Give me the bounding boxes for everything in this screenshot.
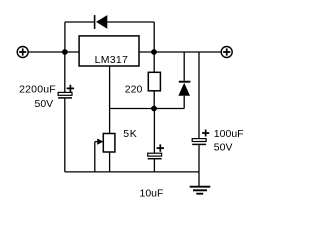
C3 plus sign — [202, 130, 209, 137]
potentiometer R2 5K body — [103, 134, 115, 153]
wire bypass left vertical — [64, 22, 66, 52]
svg-text:LM317: LM317 — [95, 54, 129, 66]
svg-text:220: 220 — [125, 83, 143, 95]
C1 plus sign — [67, 85, 74, 92]
diode D2 (points up) — [178, 82, 190, 96]
output terminal (+) — [221, 47, 232, 58]
regulator U1 LM317 box — [79, 36, 139, 66]
ground — [190, 172, 211, 194]
wire wiper vertical — [94, 142, 96, 172]
wire output rail — [139, 51, 221, 53]
input terminal (+) — [17, 47, 28, 58]
capacitor C2 plates — [148, 153, 162, 159]
capacitor C1 plates — [58, 92, 72, 98]
node input junction — [62, 49, 68, 55]
capacitor C1 2200uF top lead — [64, 52, 66, 92]
wire D2 top lead — [183, 52, 185, 81]
svg-text:2200uF: 2200uF — [19, 84, 56, 96]
node adj junction — [151, 106, 157, 112]
wire R1 bottom lead — [153, 91, 155, 109]
wire pot bottom lead — [109, 152, 111, 172]
wire adj rail — [110, 108, 185, 110]
svg-text:50V: 50V — [35, 98, 54, 110]
capacitor C3 100uF top lead — [198, 52, 200, 139]
svg-text:50V: 50V — [214, 142, 233, 154]
C2 plus sign — [157, 144, 164, 151]
wire C3 bottom lead — [198, 145, 200, 172]
wiper arrow — [95, 139, 104, 145]
wire D2 bottom lead — [183, 96, 185, 109]
node output junction — [151, 49, 157, 55]
wire R1 top lead — [153, 52, 155, 72]
wire bottom rail — [65, 171, 199, 173]
wire adj pin vertical — [109, 66, 111, 134]
svg-text:5K: 5K — [123, 128, 137, 140]
svg-text:100uF: 100uF — [214, 128, 244, 140]
capacitor C3 plates — [192, 139, 206, 145]
resistor R1 220 — [148, 72, 160, 91]
wire bypass top horizontal — [65, 22, 154, 52]
wire C1 bottom lead — [64, 99, 66, 172]
svg-text:10uF: 10uF — [140, 188, 164, 200]
diode D1 (protection, points left) — [95, 15, 108, 29]
capacitor C2 10uF top lead — [153, 109, 155, 154]
wire input rail — [28, 51, 79, 53]
wire C2 bottom lead — [153, 159, 155, 172]
